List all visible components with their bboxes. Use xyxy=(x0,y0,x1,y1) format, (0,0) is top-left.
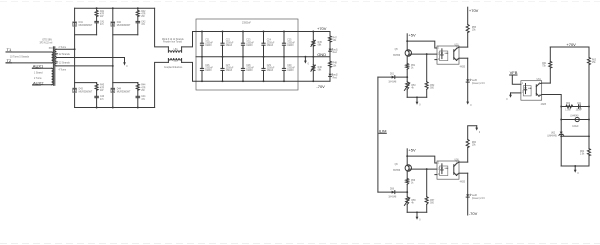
optocoupler U51 pin numbers xyxy=(438,47,458,61)
capacitor C43 xyxy=(95,96,99,97)
wire +5V down to Q6 xyxy=(406,149,408,165)
resistor R52 labels xyxy=(430,85,435,90)
svg-text:2350uF: 2350uF xyxy=(267,42,275,44)
transformer core line left xyxy=(52,47,54,86)
optocoupler U51 4N35 xyxy=(437,46,459,64)
LED Led2 labels xyxy=(333,75,339,80)
LED Led1 labels xyxy=(333,49,339,54)
junction +5V rail xyxy=(406,40,408,42)
resistor R57 xyxy=(425,197,428,205)
svg-text:+70V: +70V xyxy=(566,42,576,47)
svg-text:D56: D56 xyxy=(390,188,395,190)
junction ground rail xyxy=(416,211,418,213)
diode D51 labels xyxy=(388,73,397,83)
wire zener to bottom rail xyxy=(560,134,562,166)
wire Q5 base to opto xyxy=(409,53,437,55)
svg-text:D42: D42 xyxy=(117,22,122,24)
capacitor C61 on rail1 xyxy=(579,105,581,108)
wire ILIM branch xyxy=(378,76,407,78)
svg-text:MUR3060WT: MUR3060WT xyxy=(117,92,131,94)
wire +5V rail to opto xyxy=(407,41,437,48)
capacitor C27 labels xyxy=(226,65,234,72)
svg-text:Led6: Led6 xyxy=(472,195,478,197)
wire rail2 xyxy=(561,119,589,121)
net flag AUX1 underline xyxy=(32,67,40,69)
zener D61 LM4040 xyxy=(559,132,564,136)
resistor R60 xyxy=(466,139,469,147)
svg-text:R47: R47 xyxy=(333,37,338,39)
svg-text:1N4148: 1N4148 xyxy=(388,197,397,199)
svg-text:CMAX: CMAX xyxy=(287,44,294,47)
resistor R61 xyxy=(549,61,552,68)
ground arrow center tap xyxy=(123,62,126,65)
svg-text:GND: GND xyxy=(317,52,326,57)
wire zener tap rail xyxy=(561,135,589,137)
wire opto emitter to divider xyxy=(542,95,562,107)
optocoupler U51 pin stubs xyxy=(435,47,459,60)
svg-text:Led5: Led5 xyxy=(472,80,478,82)
svg-text:2350uF: 2350uF xyxy=(205,42,213,44)
svg-text:Red: Red xyxy=(333,52,338,54)
ground arrow sub1 xyxy=(416,97,422,106)
svg-text:R46: R46 xyxy=(318,67,323,69)
LED Led6 xyxy=(466,194,471,197)
diode D44 MUR3060WT xyxy=(111,88,115,92)
wire negative bottom bus xyxy=(75,107,155,109)
trimmer R58 xyxy=(404,197,409,206)
wire right divider column top xyxy=(588,47,590,57)
wire opto emitter out xyxy=(459,172,468,174)
power +5V flag xyxy=(408,148,416,153)
wire C42 down to join xyxy=(137,23,139,35)
wire R51 to ILIM node xyxy=(406,69,408,81)
junction left rail2 xyxy=(560,119,562,121)
diode D41 MUR3060WT xyxy=(73,22,77,26)
trimmer R46 labels xyxy=(318,67,323,72)
svg-text:R55: R55 xyxy=(472,27,477,29)
resistor R63 xyxy=(588,57,591,64)
resistor R47 labels xyxy=(333,37,338,42)
svg-text:2350uF: 2350uF xyxy=(226,42,234,44)
resistor R62 labels xyxy=(565,103,571,112)
svg-text:1 Strand: 1 Strand xyxy=(34,71,43,74)
wire VFB to opto anode xyxy=(512,75,521,84)
junction +5V rail xyxy=(406,155,408,157)
wire T1 to primary xyxy=(6,51,52,53)
junction C21 top rail xyxy=(201,31,203,33)
resistor R64 labels xyxy=(580,151,585,156)
net flag T2 underline xyxy=(6,62,12,64)
resistor R55 labels xyxy=(472,27,477,32)
wire Q5 emitter down xyxy=(406,56,408,63)
LED Led6 labels xyxy=(472,195,486,200)
svg-text:PRI: PRI xyxy=(49,48,53,50)
LED Led5 xyxy=(466,79,471,82)
svg-text:(2) 12 Strands: (2) 12 Strands xyxy=(56,61,71,64)
trimmer R58 labels xyxy=(411,200,416,205)
svg-text:CMAX: CMAX xyxy=(287,69,294,72)
svg-text:CMAX: CMAX xyxy=(226,44,233,47)
junction leg2 top bus xyxy=(112,7,114,9)
wire right bus bottom L xyxy=(155,62,169,107)
svg-text:CMAX: CMAX xyxy=(246,44,253,47)
optocoupler U56 4N35 xyxy=(437,161,459,179)
wire bottom rail sc3 xyxy=(561,165,589,167)
trimmer R46 xyxy=(311,57,315,81)
wire opto cathode to ground xyxy=(511,92,521,94)
wire R42 to top bus xyxy=(137,8,139,10)
junction C25 mid rail xyxy=(283,56,285,58)
wire Q6 emitter down xyxy=(406,171,408,178)
junction ground rail xyxy=(416,96,418,98)
svg-text:R60: R60 xyxy=(472,142,477,144)
diode D51 1N4148 xyxy=(392,76,395,79)
junction C44 bottom bus xyxy=(137,107,139,109)
svg-text:R52: R52 xyxy=(430,85,435,87)
wire ground rail xyxy=(407,96,427,98)
junction ILIM node xyxy=(406,191,408,193)
inductor L5A xyxy=(168,47,181,53)
junction ground arrow xyxy=(304,56,306,58)
junction C23 mid rail xyxy=(242,56,244,58)
wire bottom rail xyxy=(196,80,330,82)
wire rail1 xyxy=(561,106,589,108)
optocoupler U61 pin stubs xyxy=(539,83,542,96)
ground arrow sc3 bottom xyxy=(574,166,580,175)
wire opto collector to rail xyxy=(542,82,551,84)
wire mid GND rail xyxy=(196,56,330,58)
wire C43 to bottom bus xyxy=(96,98,98,108)
power +5V flag xyxy=(408,33,416,38)
svg-text:Led1: Led1 xyxy=(333,49,339,51)
wire opto collector out xyxy=(459,161,468,163)
wire choke top out to cap bank xyxy=(182,32,196,47)
circle component C62 on rail2 xyxy=(575,117,579,121)
resistor R55 xyxy=(466,24,469,32)
svg-text:CMAX: CMAX xyxy=(267,69,274,72)
svg-text:BC556: BC556 xyxy=(393,55,401,57)
svg-text:10 Turns 5 Strands: 10 Turns 5 Strands xyxy=(10,56,30,59)
wire opto emitter to Led6 xyxy=(467,173,469,194)
wire Q6 base to opto xyxy=(409,168,437,170)
junction secondary bottom / leg2 xyxy=(112,65,114,67)
junction base wire / R52 column xyxy=(426,53,428,55)
wire Led5 to ground xyxy=(467,82,469,102)
capacitor C24 labels xyxy=(267,40,275,47)
svg-text:R53: R53 xyxy=(411,85,416,87)
resistor R64 xyxy=(588,149,591,156)
transformer secondary winding xyxy=(55,49,57,66)
wire +70V to R55 xyxy=(467,7,469,24)
svg-text:R61: R61 xyxy=(542,63,547,65)
svg-text:Red: Red xyxy=(333,77,338,79)
wire +5V down to Q5 xyxy=(406,34,408,50)
capacitor C29 xyxy=(262,57,265,81)
svg-text:4N35: 4N35 xyxy=(460,66,466,68)
junction leg2 bottom bus xyxy=(112,107,114,109)
wire R57 column xyxy=(426,169,428,197)
resistor R48 xyxy=(329,57,332,74)
resistor R60 labels xyxy=(472,142,477,147)
wire snubber3 vertical xyxy=(96,83,98,84)
resistor R44 xyxy=(136,84,139,90)
svg-text:+5V: +5V xyxy=(408,148,416,153)
wire R61 to opto collector xyxy=(549,68,551,83)
wire opto emitter to Led5 xyxy=(467,58,469,79)
svg-text:U61: U61 xyxy=(537,79,542,81)
page border top dashed xyxy=(0,1,600,3)
svg-text:MUR3060WT: MUR3060WT xyxy=(79,25,93,27)
svg-text:CMAX: CMAX xyxy=(267,44,274,47)
junction C30 bottom rail xyxy=(283,80,285,82)
power -70V flag xyxy=(469,211,478,216)
svg-text:3F3 N 22 mil: 3F3 N 22 mil xyxy=(40,42,53,44)
ground arrow at GND rail xyxy=(304,57,307,64)
capacitor C26 xyxy=(200,57,203,81)
net flag ILIM xyxy=(379,129,387,134)
wire R41 to C41 xyxy=(96,17,98,22)
svg-text:T2: T2 xyxy=(7,58,12,63)
transistor Q5 labels xyxy=(393,49,401,57)
svg-text:L5A: L5A xyxy=(174,48,179,51)
optocoupler U61 pin numbers xyxy=(522,83,541,97)
svg-text:(2) 12 Strands: (2) 12 Strands xyxy=(56,53,71,56)
capacitor C24 xyxy=(262,32,265,57)
svg-text:1.00k: 1.00k xyxy=(565,110,571,112)
svg-text:(Green) 2.1V: (Green) 2.1V xyxy=(472,197,486,200)
wire +70V top rail sc3 xyxy=(550,46,589,48)
wire R52 column xyxy=(426,54,428,82)
wire R44 to C44 xyxy=(137,90,139,96)
junction C23 top rail xyxy=(242,31,244,33)
junction ILIM node xyxy=(406,76,408,78)
capacitor C42 xyxy=(136,21,140,22)
wire R57 to ground rail xyxy=(426,204,428,212)
wire rail to R61 xyxy=(549,47,551,61)
wire AUX2 to aux winding xyxy=(33,84,52,86)
resistor R52 xyxy=(425,82,428,90)
capacitor C30 labels xyxy=(287,65,295,72)
junction R46 bottom rail xyxy=(312,80,314,82)
svg-text:4N25: 4N25 xyxy=(541,104,547,106)
svg-text:+5V: +5V xyxy=(408,33,416,38)
wire R55 to opto collector xyxy=(467,33,469,48)
junction right zener tap xyxy=(588,135,590,137)
junction R42 top bus xyxy=(137,7,139,9)
wire trimmer to ground rail xyxy=(406,204,408,212)
svg-text:R45: R45 xyxy=(318,42,323,44)
svg-text:+70V: +70V xyxy=(469,8,479,13)
svg-text:23500uF: 23500uF xyxy=(242,23,252,25)
wire T2 to primary xyxy=(6,62,52,64)
zener D61 labels xyxy=(547,132,557,137)
ground arrow sc2 top xyxy=(475,126,481,134)
wire ILIM branch xyxy=(378,191,407,193)
svg-text:-70V: -70V xyxy=(316,84,325,89)
junction C26 bottom rail xyxy=(201,80,203,82)
resistor R57 labels xyxy=(430,200,435,205)
junction R45 mid rail xyxy=(312,56,314,58)
svg-text:2 Turns: 2 Turns xyxy=(59,46,67,49)
wire C41 down to join xyxy=(96,23,98,35)
capacitor C25 xyxy=(282,32,285,57)
svg-text:(Green) 2.1V: (Green) 2.1V xyxy=(472,82,486,85)
junction R45 top rail xyxy=(312,31,314,33)
svg-text:D51: D51 xyxy=(390,73,395,75)
svg-text:BC556: BC556 xyxy=(393,170,401,172)
junction right rail1 xyxy=(588,106,590,108)
svg-text:2350uF: 2350uF xyxy=(205,68,213,70)
capacitor C28 xyxy=(241,57,244,81)
capacitor C41 xyxy=(95,21,99,22)
ground arrow sc1 xyxy=(466,102,472,107)
junction C25 top rail xyxy=(283,31,285,33)
capacitor C28 labels xyxy=(246,65,254,72)
transistor Q6 labels xyxy=(393,164,401,172)
wire opto collector out xyxy=(459,46,468,48)
wire R63 down right column xyxy=(588,65,590,149)
secondary tap pin mark 2 xyxy=(56,61,57,62)
resistor R56 xyxy=(406,178,409,184)
junction left rail1 xyxy=(560,106,562,108)
svg-text:T1: T1 xyxy=(7,47,12,52)
capacitor C44 xyxy=(136,96,140,97)
trimmer R53 labels xyxy=(411,85,416,90)
svg-text:2350uF: 2350uF xyxy=(246,42,254,44)
wire secondary bottom to bridge leg 2 xyxy=(56,65,112,67)
resistor R51 labels xyxy=(411,65,416,70)
capacitor C27 xyxy=(221,57,224,81)
svg-text:4N35: 4N35 xyxy=(460,181,466,183)
resistor R61 labels xyxy=(542,63,547,68)
ground arrow sub2 xyxy=(416,212,422,221)
wire R64 to bottom rail xyxy=(588,156,590,166)
transistor Q6 BC556 xyxy=(405,165,411,171)
svg-text:CMAX: CMAX xyxy=(205,69,212,72)
svg-text:R57: R57 xyxy=(430,200,435,202)
wire C44 to bottom bus xyxy=(137,98,139,108)
svg-text:CMAX: CMAX xyxy=(246,69,253,72)
diode D56 labels xyxy=(388,188,397,198)
inductor L5B xyxy=(168,58,181,62)
svg-text:R58: R58 xyxy=(411,200,416,202)
svg-text:VFB: VFB xyxy=(510,70,518,75)
svg-text:(LM4040): (LM4040) xyxy=(547,135,557,137)
wire R56 to ILIM node xyxy=(406,184,408,196)
wire snubber4 vertical xyxy=(137,83,139,84)
svg-text:D41: D41 xyxy=(79,22,84,24)
junction C29 bottom rail xyxy=(263,80,265,82)
wire bridge AC leg 1 xyxy=(74,8,76,107)
junction bottom rail ground xyxy=(574,165,576,167)
resistor R63 labels xyxy=(592,59,597,64)
capacitor C29 labels xyxy=(267,65,275,72)
resistor R62 on rail1 xyxy=(566,105,573,108)
svg-text:CMAX: CMAX xyxy=(226,69,233,72)
svg-text:2350uF: 2350uF xyxy=(287,68,295,70)
svg-text:D43: D43 xyxy=(79,89,84,91)
transformer T1 primary winding xyxy=(52,52,54,63)
capacitor C26 labels xyxy=(205,65,213,72)
resistor R51 xyxy=(406,63,409,69)
svg-text:U62: U62 xyxy=(551,132,556,134)
resistor R42 xyxy=(136,10,139,16)
wire left divider column xyxy=(560,107,562,132)
wire top rail xyxy=(196,31,330,33)
svg-text:R48: R48 xyxy=(333,63,338,65)
wire snubber1 join xyxy=(75,34,97,36)
wire R42 to C42 xyxy=(137,17,139,22)
capacitor C61 labels xyxy=(576,103,583,112)
capacitor C23 xyxy=(241,32,244,57)
svg-text:MUR3060WT: MUR3060WT xyxy=(117,25,131,27)
capacitor C23 labels xyxy=(246,40,254,47)
wire snubber2 join xyxy=(113,34,138,36)
wire bridge AC leg 2 xyxy=(112,8,114,107)
diode D56 1N4148 xyxy=(392,191,395,194)
wire trimmer to ground rail xyxy=(406,89,408,97)
optocoupler U56 pin numbers xyxy=(438,162,458,176)
wire right bus top L xyxy=(155,8,169,47)
wire choke bottom out to cap bank xyxy=(182,62,196,81)
resistor R56 labels xyxy=(411,180,416,185)
resistor R48 labels xyxy=(333,63,338,68)
capacitor C25 labels xyxy=(287,40,295,47)
svg-text:L5B: L5B xyxy=(174,60,179,62)
net flag AUX2 underline xyxy=(33,84,41,86)
junction base wire / R57 column xyxy=(426,168,428,170)
transformer aux winding xyxy=(52,68,54,85)
junction C43 bottom bus xyxy=(96,107,98,109)
wire secondary top to bridge leg 1 xyxy=(56,48,74,50)
resistor R41 xyxy=(95,10,98,16)
LED Led2 Red xyxy=(329,74,334,82)
svg-text:-70V: -70V xyxy=(469,211,478,216)
junction C21 mid rail xyxy=(201,56,203,58)
secondary tap pin mark 1 xyxy=(56,53,57,54)
svg-text:4 Turns: 4 Turns xyxy=(59,69,67,72)
svg-text:CMAX: CMAX xyxy=(205,44,212,47)
svg-text:Wind # 12 12 Strands: Wind # 12 12 Strands xyxy=(162,38,185,41)
optocoupler U56 pin stubs xyxy=(435,162,459,175)
power +70V flag sc1 xyxy=(469,8,479,13)
junction C27 bottom rail xyxy=(222,80,224,82)
junction C28 bottom rail xyxy=(242,80,244,82)
svg-text:ETD 59N: ETD 59N xyxy=(43,39,53,41)
svg-text:MUR3060WT: MUR3060WT xyxy=(79,92,93,94)
LED Led5 labels xyxy=(472,80,486,85)
trimmer R45 xyxy=(311,32,315,57)
wire opto emitter out xyxy=(459,57,468,59)
junction secondary top / leg1 xyxy=(74,48,76,50)
diode D42 MUR3060WT xyxy=(111,22,115,26)
wire ILIM bus xyxy=(377,77,379,192)
wire Led6 to -70V xyxy=(467,197,469,215)
page border bottom dashed xyxy=(0,243,600,245)
junction C22 top rail xyxy=(222,31,224,33)
svg-text:100nF: 100nF xyxy=(576,110,583,112)
wire positive top bus xyxy=(75,7,155,9)
junction C22 mid rail xyxy=(222,56,224,58)
ground arrow sc3 left xyxy=(506,93,512,101)
wire R60 to ground corner xyxy=(468,126,477,140)
svg-text:R63: R63 xyxy=(592,59,597,61)
resistor R43 xyxy=(95,84,98,90)
transformer core line right xyxy=(54,47,56,86)
svg-text:1N4148: 1N4148 xyxy=(388,82,397,84)
junction zener tap xyxy=(560,135,562,137)
wire opto collector up sc2 xyxy=(467,148,469,163)
